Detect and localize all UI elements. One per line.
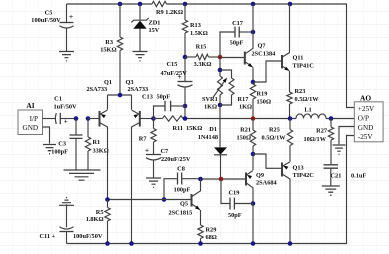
node C8-Q5base <box>162 197 167 202</box>
ground AI <box>43 145 56 154</box>
connector AO box <box>354 94 383 142</box>
svg-text:C15: C15 <box>167 61 178 68</box>
svg-text:R19: R19 <box>257 91 268 98</box>
node R11-rail <box>183 116 188 121</box>
node rail-Q11 <box>288 2 293 7</box>
wire -25V bus <box>67 136 355 244</box>
svg-text:100uF/50V: 100uF/50V <box>31 17 61 24</box>
capacitor C15 <box>161 57 193 106</box>
svg-text:R1: R1 <box>93 139 101 146</box>
node rail-R13 <box>183 2 188 7</box>
transistor Q7 <box>220 4 277 82</box>
svg-text:1KΩ: 1KΩ <box>239 104 252 111</box>
svg-text:R17: R17 <box>238 96 249 103</box>
svg-text:R25: R25 <box>269 127 280 134</box>
svg-text:3.3KΩ: 3.3KΩ <box>194 61 212 68</box>
node bus-Q9 <box>251 241 256 246</box>
node C3-R1 <box>86 116 91 121</box>
capacitor C21 <box>324 165 367 186</box>
svg-text:0.1uF: 0.1uF <box>351 173 366 180</box>
transistor Q13 <box>253 154 314 244</box>
resistor R19 <box>250 82 271 118</box>
wire C13node-R11node <box>184 106 186 119</box>
transistor Q9 <box>201 154 278 204</box>
transistor Q3 <box>126 79 154 244</box>
node rail-R3 <box>118 2 123 7</box>
svg-text:AO: AO <box>360 94 371 103</box>
wire +25V top rail <box>67 4 355 108</box>
svg-text:1uF/50V: 1uF/50V <box>54 104 78 111</box>
ground AO <box>333 145 346 154</box>
zener diode ZD1 <box>131 4 160 51</box>
resistor R27 <box>303 119 333 165</box>
node bus-R5 <box>105 241 110 246</box>
svg-text:+25V: +25V <box>358 105 375 113</box>
svg-text:15V: 15V <box>149 27 160 34</box>
capacitor C11 <box>40 204 103 243</box>
node rail-ZD1 <box>138 2 143 7</box>
svg-text:R9 1.2KΩ: R9 1.2KΩ <box>156 9 183 16</box>
wire AO GND <box>339 127 355 145</box>
svg-text:R29: R29 <box>206 227 217 234</box>
svg-text:TIP42C: TIP42C <box>293 172 315 179</box>
node C1-C3 <box>74 116 79 121</box>
svg-text:1KΩ: 1KΩ <box>204 104 217 111</box>
connector AI box <box>18 101 43 135</box>
svg-text:R7: R7 <box>139 136 147 143</box>
svg-text:C5: C5 <box>45 10 53 17</box>
node Q1col-R5 <box>105 197 110 202</box>
svg-text:C11 +: C11 + <box>40 233 56 240</box>
capacitor C8 <box>164 166 201 200</box>
svg-text:Q7: Q7 <box>258 43 266 50</box>
svg-text:150Ω: 150Ω <box>257 99 272 106</box>
node C15-C13 <box>183 104 188 109</box>
node SVR1 bottom <box>218 103 223 108</box>
node output-R27 <box>329 116 334 121</box>
svg-text:R15: R15 <box>196 44 207 51</box>
node Q7 base <box>218 55 223 60</box>
svg-text:-25V: -25V <box>358 133 374 141</box>
resistor R3 <box>100 4 122 95</box>
svg-text:Q9: Q9 <box>256 172 264 179</box>
svg-text:1N4148: 1N4148 <box>198 134 218 141</box>
svg-text:Q11: Q11 <box>293 55 304 62</box>
svg-text:O/P: O/P <box>358 115 369 123</box>
svg-text:C3: C3 <box>58 141 66 148</box>
svg-text:0.5Ω/1W: 0.5Ω/1W <box>262 135 287 142</box>
capacitor C1 <box>43 96 78 126</box>
node R21-Q9emitter <box>251 152 256 157</box>
wire Q1col-Q5base <box>108 199 192 201</box>
inductor L1 <box>296 107 355 119</box>
svg-text:33KΩ: 33KΩ <box>93 148 109 155</box>
resistor R1 <box>85 119 108 170</box>
svg-text:15KΩ: 15KΩ <box>100 47 116 54</box>
svg-text:2SC1384: 2SC1384 <box>252 51 277 58</box>
node rail-Q7 <box>251 2 256 7</box>
svg-text:C21: C21 <box>331 173 342 180</box>
resistor R9 <box>152 1 183 16</box>
transistor Q5 <box>169 179 201 225</box>
svg-text:100uF/50V: 100uF/50V <box>73 233 103 240</box>
wire AI GND to ground <box>43 127 50 144</box>
node bus-Q13 <box>288 241 293 246</box>
svg-text:GND: GND <box>358 124 374 132</box>
svg-text:R27: R27 <box>316 128 327 135</box>
resistor R29 <box>198 225 217 244</box>
node R13-R15-C15 <box>183 55 188 60</box>
node bus-Q3col <box>129 241 134 246</box>
potentiometer SVR1 <box>202 57 227 111</box>
svg-text:I/P: I/P <box>30 115 38 123</box>
svg-text:L1: L1 <box>304 107 311 114</box>
svg-text:2SA733: 2SA733 <box>87 86 108 93</box>
node bus-R29 <box>198 241 203 246</box>
svg-text:2SC1815: 2SC1815 <box>169 210 193 217</box>
node diff emitters <box>118 93 123 98</box>
ground C11 inverted <box>59 198 74 206</box>
node D1-Q9base <box>219 177 224 182</box>
svg-text:220uF/25V: 220uF/25V <box>161 156 191 163</box>
svg-text:1.8KΩ: 1.8KΩ <box>86 216 104 223</box>
node C8-Q5collector <box>198 177 203 182</box>
svg-text:50pF: 50pF <box>157 94 171 101</box>
svg-text:AI: AI <box>26 101 34 110</box>
ground ZD1 <box>133 52 148 61</box>
svg-text:C19: C19 <box>229 190 240 197</box>
resistor R21 <box>237 119 256 155</box>
svg-text:D1: D1 <box>209 126 217 133</box>
svg-text:Q1: Q1 <box>104 79 112 86</box>
capacitor C13 <box>142 94 185 119</box>
node Q3base <box>151 116 156 121</box>
diode D1 <box>198 105 227 179</box>
ground C21 <box>322 186 340 195</box>
svg-text:Q5: Q5 <box>180 201 188 208</box>
capacitor C17 <box>220 20 253 57</box>
svg-text:R3: R3 <box>105 39 113 46</box>
svg-text:1.5KΩ: 1.5KΩ <box>190 30 208 37</box>
svg-text:68Ω: 68Ω <box>206 234 217 241</box>
svg-text:+: + <box>69 12 73 21</box>
svg-text:15KΩ: 15KΩ <box>186 125 202 132</box>
capacitor C19 <box>221 179 253 219</box>
svg-text:C13: C13 <box>142 94 153 101</box>
node output-R19R21 <box>251 116 256 121</box>
svg-text:100pF: 100pF <box>174 187 191 194</box>
svg-text:100pF: 100pF <box>51 149 68 156</box>
ground C3-R1 <box>64 170 101 180</box>
resistor R23 <box>287 88 320 118</box>
node SVR1 top <box>218 68 223 73</box>
svg-text:+: + <box>64 118 68 126</box>
ground C5 <box>59 52 74 61</box>
node Q9collector-C19 <box>251 201 256 206</box>
resistor R15 <box>185 44 219 69</box>
svg-text:C7: C7 <box>161 148 169 155</box>
svg-text:R21: R21 <box>240 127 251 134</box>
resistor R25 <box>262 119 293 162</box>
svg-text:C8: C8 <box>177 166 185 173</box>
resistor R13 <box>182 4 208 57</box>
node Q7emitter-Q11base <box>251 80 256 85</box>
svg-text:C1: C1 <box>54 96 62 103</box>
wire diff emitters <box>108 94 132 96</box>
svg-text:0.5Ω/1W: 0.5Ω/1W <box>295 96 320 103</box>
svg-text:2SA684: 2SA684 <box>256 180 277 187</box>
node output-R23R25 <box>288 116 293 121</box>
svg-text:SVR1: SVR1 <box>202 96 218 103</box>
resistor R11 <box>154 116 203 132</box>
svg-text:50pF: 50pF <box>230 39 244 46</box>
svg-text:R23: R23 <box>295 88 306 95</box>
svg-text:TIP41C: TIP41C <box>293 63 315 70</box>
svg-text:47uF/25V: 47uF/25V <box>161 70 188 77</box>
ground C7 <box>146 178 161 187</box>
svg-text:R11: R11 <box>173 125 184 132</box>
svg-text:10Ω/1W: 10Ω/1W <box>303 136 326 143</box>
wire Q9col to bus <box>252 204 254 244</box>
resistor R7 <box>139 119 156 155</box>
svg-text:Q13: Q13 <box>293 165 304 172</box>
svg-text:C17: C17 <box>232 20 243 27</box>
svg-text:2SA733: 2SA733 <box>128 86 149 93</box>
svg-text:+: + <box>145 146 149 155</box>
svg-text:ZD1: ZD1 <box>149 20 161 27</box>
transistor Q1 <box>87 79 113 200</box>
node C17-Q7collector <box>251 30 256 35</box>
svg-text:50pF: 50pF <box>228 212 242 219</box>
capacitor C3 <box>51 119 82 170</box>
svg-text:GND: GND <box>23 124 39 132</box>
svg-text:R13: R13 <box>190 22 201 29</box>
transistor Q11 <box>253 4 314 92</box>
capacitor C5 <box>31 4 73 51</box>
resistor R17 <box>220 70 252 111</box>
capacitor C7 <box>145 146 191 178</box>
svg-text:150Ω: 150Ω <box>237 135 252 142</box>
resistor R5 <box>86 200 111 244</box>
svg-text:Q3: Q3 <box>126 79 134 86</box>
wire output rail <box>185 118 296 120</box>
